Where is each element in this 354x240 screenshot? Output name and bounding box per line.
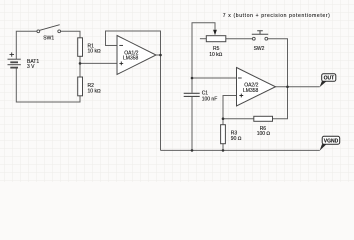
svg-text:10 kΩ: 10 kΩ	[88, 49, 101, 55]
svg-text:OUT: OUT	[324, 76, 335, 82]
wire C1 bottom plate to VGND rail	[191, 97, 193, 150]
wire battery plus to SW1	[16, 31, 37, 59]
wire OA1 output down to VGND rail	[160, 55, 162, 150]
wire R3 bottom stub	[222, 144, 224, 151]
resistor R3	[221, 125, 226, 144]
wire OA2 non-inverting input to node	[223, 96, 237, 119]
capacitor C1	[184, 93, 200, 96]
wire R5 wiper feed from node	[192, 23, 215, 78]
resistor R1	[78, 38, 83, 57]
resistor R6	[254, 116, 273, 121]
wire R6 left to node	[223, 118, 254, 120]
svg-text:7 x (button + precision potent: 7 x (button + precision potentiometer)	[223, 13, 331, 19]
wire OA2 output	[276, 86, 288, 88]
wire node to OA2 inverting input	[192, 77, 237, 79]
wire SW1 to R1 top	[61, 31, 80, 38]
resistor R2	[78, 77, 83, 96]
op-amp OA1	[117, 36, 156, 75]
wire VGND rail	[161, 149, 320, 151]
junction node output	[286, 85, 289, 88]
wire R1 bottom to R2 top	[79, 56, 81, 77]
wire battery minus bottom rail to R2	[16, 68, 80, 102]
battery BAT1	[8, 52, 21, 67]
wire R3 top stub	[222, 119, 224, 125]
svg-text:VGND: VGND	[324, 138, 339, 144]
junction node OA1 output	[159, 54, 162, 57]
junction node OA2 non-inverting input R3 R6	[222, 117, 225, 120]
svg-text:SW1: SW1	[43, 36, 54, 42]
flag VGND	[320, 136, 340, 151]
svg-text:LM358: LM358	[243, 88, 259, 94]
flag OUT	[320, 74, 336, 87]
junction node OA2 inverting input and C1	[191, 77, 194, 80]
junction node R1 R2 divider	[79, 62, 82, 65]
wire node down to C1 top plate	[191, 78, 193, 93]
wire OA1 feedback loop output to inverting input	[106, 31, 161, 55]
switch SW2 push button	[252, 31, 268, 40]
svg-text:100 nF: 100 nF	[202, 96, 218, 102]
wire output node to OUT flag	[288, 86, 320, 88]
switch SW1	[37, 25, 61, 33]
svg-text:SW2: SW2	[254, 46, 265, 52]
svg-text:100 Ω: 100 Ω	[257, 131, 271, 137]
wire SW2 down right side to R6	[268, 39, 288, 119]
svg-text:3 V: 3 V	[27, 64, 35, 70]
op-amp OA2	[237, 68, 276, 107]
junction node R3 on VGND rail	[222, 149, 225, 152]
svg-text:LM358: LM358	[123, 56, 139, 62]
potentiometer R5	[206, 30, 226, 42]
junction node C1 on VGND rail	[191, 149, 194, 152]
wire divider node to OA1 plus input	[80, 62, 117, 64]
svg-text:10 kΩ: 10 kΩ	[88, 88, 101, 94]
svg-text:10 kΩ: 10 kΩ	[209, 52, 222, 58]
wire R5 to SW2	[226, 38, 253, 40]
wire R5 left stub	[200, 38, 206, 40]
svg-text:90 Ω: 90 Ω	[231, 136, 242, 142]
